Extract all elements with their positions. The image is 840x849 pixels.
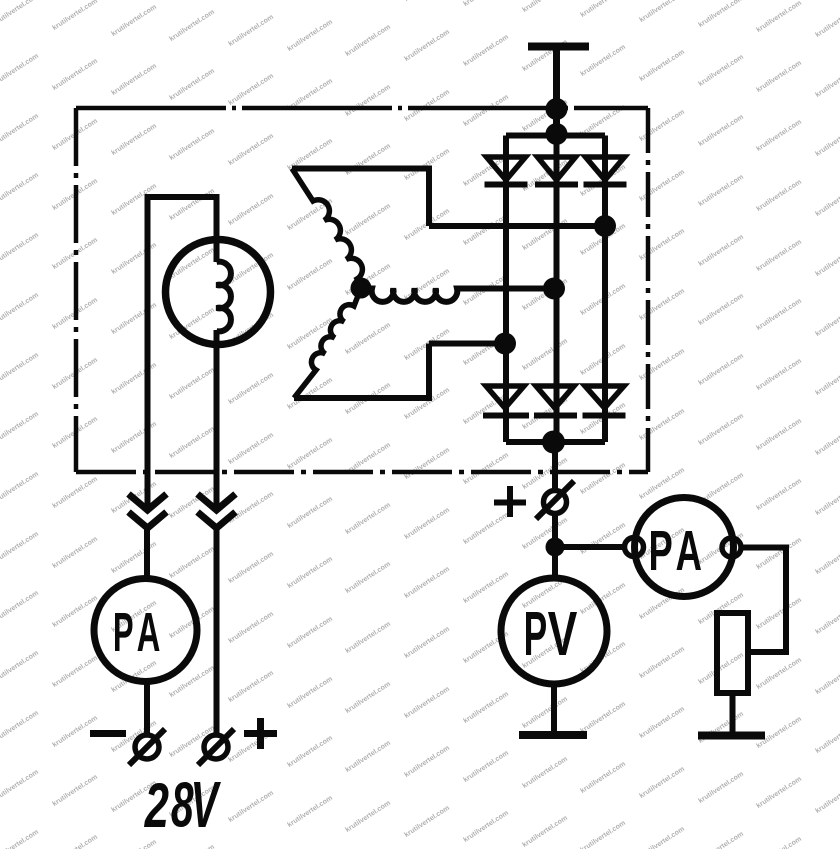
diode VD3 cathode bar	[584, 182, 627, 188]
svg-text:krutilvertel.com: krutilvertel.com	[755, 477, 803, 512]
terminal: plus output (circle with slash)	[544, 491, 567, 514]
svg-text:krutilvertel.com: krutilvertel.com	[110, 301, 158, 336]
svg-text:krutilvertel.com: krutilvertel.com	[403, 0, 451, 3]
svg-text:krutilvertel.com: krutilvertel.com	[638, 407, 686, 442]
svg-text:krutilvertel.com: krutilvertel.com	[344, 142, 392, 177]
node: phase B at diode column 2	[543, 278, 565, 300]
svg-text:krutilvertel.com: krutilvertel.com	[0, 171, 40, 206]
svg-text:krutilvertel.com: krutilvertel.com	[755, 0, 803, 34]
svg-text:krutilvertel.com: krutilvertel.com	[521, 337, 569, 372]
svg-text:krutilvertel.com: krutilvertel.com	[462, 33, 510, 68]
svg-text:krutilvertel.com: krutilvertel.com	[403, 446, 451, 481]
svg-text:krutilvertel.com: krutilvertel.com	[110, 838, 158, 849]
svg-text:krutilvertel.com: krutilvertel.com	[0, 52, 40, 87]
wire ground stem to rectifier	[553, 47, 560, 137]
diode VD5 cathode bar	[534, 413, 577, 419]
alternator housing border right (dash-dot)	[646, 108, 651, 472]
brush arrow right (double chevron)	[198, 494, 236, 510]
svg-text:krutilvertel.com: krutilvertel.com	[814, 482, 840, 517]
svg-text:krutilvertel.com: krutilvertel.com	[286, 436, 334, 471]
node: PV / PA2 tap	[546, 538, 565, 557]
svg-text:krutilvertel.com: krutilvertel.com	[227, 371, 275, 406]
wire diode column 2	[554, 136, 560, 442]
svg-text:krutilvertel.com: krutilvertel.com	[403, 625, 451, 660]
brush arrow left (double chevron)	[129, 494, 167, 510]
svg-text:krutilvertel.com: krutilvertel.com	[579, 760, 627, 795]
svg-text:krutilvertel.com: krutilvertel.com	[814, 64, 840, 99]
stator top edge	[292, 169, 429, 227]
svg-text:krutilvertel.com: krutilvertel.com	[227, 550, 275, 585]
svg-text:krutilvertel.com: krutilvertel.com	[51, 833, 99, 849]
svg-text:krutilvertel.com: krutilvertel.com	[51, 535, 99, 570]
svg-text:krutilvertel.com: krutilvertel.com	[814, 541, 840, 576]
svg-text:krutilvertel.com: krutilvertel.com	[638, 0, 686, 24]
svg-text:krutilvertel.com: krutilvertel.com	[814, 422, 840, 457]
svg-text:krutilvertel.com: krutilvertel.com	[755, 178, 803, 213]
wire cathode bus (bottom)	[506, 439, 605, 445]
wire rotor loop (brush leads)	[148, 197, 217, 510]
svg-text:krutilvertel.com: krutilvertel.com	[168, 187, 216, 222]
svg-text:krutilvertel.com: krutilvertel.com	[814, 183, 840, 218]
stator phase B winding (horizontal coil)	[361, 289, 554, 302]
svg-text:krutilvertel.com: krutilvertel.com	[110, 122, 158, 157]
svg-text:krutilvertel.com: krutilvertel.com	[521, 755, 569, 790]
svg-text:krutilvertel.com: krutilvertel.com	[638, 825, 686, 849]
svg-text:krutilvertel.com: krutilvertel.com	[814, 601, 840, 636]
label plus (output terminal)	[494, 486, 526, 517]
svg-text:krutilvertel.com: krutilvertel.com	[110, 3, 158, 38]
wire plus output through housing	[552, 442, 558, 491]
svg-text:krutilvertel.com: krutilvertel.com	[51, 0, 99, 32]
svg-text:krutilvertel.com: krutilvertel.com	[697, 770, 745, 805]
diode VD2 cathode bar	[535, 182, 578, 188]
svg-text:krutilvertel.com: krutilvertel.com	[697, 0, 745, 29]
svg-text:krutilvertel.com: krutilvertel.com	[0, 410, 40, 445]
svg-text:krutilvertel.com: krutilvertel.com	[521, 695, 569, 730]
svg-text:krutilvertel.com: krutilvertel.com	[168, 366, 216, 401]
svg-text:krutilvertel.com: krutilvertel.com	[110, 62, 158, 97]
svg-text:krutilvertel.com: krutilvertel.com	[814, 303, 840, 338]
svg-text:krutilvertel.com: krutilvertel.com	[227, 431, 275, 466]
label plus	[244, 718, 277, 749]
svg-text:krutilvertel.com: krutilvertel.com	[168, 127, 216, 162]
ground (top chassis bar)	[528, 43, 589, 51]
svg-text:krutilvertel.com: krutilvertel.com	[403, 28, 451, 63]
svg-text:krutilvertel.com: krutilvertel.com	[638, 168, 686, 203]
svg-text:krutilvertel.com: krutilvertel.com	[462, 809, 510, 844]
svg-text:krutilvertel.com: krutilvertel.com	[521, 0, 569, 14]
svg-text:krutilvertel.com: krutilvertel.com	[0, 470, 40, 505]
svg-text:krutilvertel.com: krutilvertel.com	[462, 511, 510, 546]
svg-text:krutilvertel.com: krutilvertel.com	[0, 709, 40, 744]
svg-text:krutilvertel.com: krutilvertel.com	[110, 420, 158, 455]
resistor R (load)	[717, 613, 748, 693]
node: ground wire crossing housing border	[546, 98, 568, 120]
svg-text:krutilvertel.com: krutilvertel.com	[51, 773, 99, 808]
svg-text:krutilvertel.com: krutilvertel.com	[286, 257, 334, 292]
svg-text:krutilvertel.com: krutilvertel.com	[110, 540, 158, 575]
svg-text:krutilvertel.com: krutilvertel.com	[227, 789, 275, 824]
wire PA1 to minus terminal	[144, 682, 150, 736]
svg-text:krutilvertel.com: krutilvertel.com	[638, 347, 686, 382]
wire right brush to plus terminal	[214, 528, 220, 735]
svg-text:krutilvertel.com: krutilvertel.com	[697, 710, 745, 745]
wire left brush to ammeter PA1	[144, 528, 150, 579]
svg-text:krutilvertel.com: krutilvertel.com	[344, 321, 392, 356]
wire anode bus (top)	[506, 133, 605, 139]
svg-text:krutilvertel.com: krutilvertel.com	[227, 132, 275, 167]
svg-text:krutilvertel.com: krutilvertel.com	[0, 0, 40, 27]
svg-text:krutilvertel.com: krutilvertel.com	[286, 794, 334, 829]
svg-text:krutilvertel.com: krutilvertel.com	[814, 661, 840, 696]
svg-text:krutilvertel.com: krutilvertel.com	[227, 192, 275, 227]
svg-text:krutilvertel.com: krutilvertel.com	[697, 651, 745, 686]
svg-text:krutilvertel.com: krutilvertel.com	[814, 243, 840, 278]
wire phase A to rectifier	[429, 223, 605, 229]
svg-text:krutilvertel.com: krutilvertel.com	[579, 0, 627, 19]
svg-text:krutilvertel.com: krutilvertel.com	[638, 645, 686, 680]
alternator housing border bottom (dash-dot)	[76, 470, 648, 475]
svg-text:krutilvertel.com: krutilvertel.com	[521, 814, 569, 849]
svg-text:krutilvertel.com: krutilvertel.com	[638, 108, 686, 143]
alternator housing border top (dash-dot)	[76, 106, 648, 111]
ammeter PA2	[635, 498, 734, 597]
node: stator star point	[351, 278, 372, 299]
diode VD5	[536, 386, 574, 408]
svg-text:krutilvertel.com: krutilvertel.com	[0, 530, 40, 565]
svg-text:krutilvertel.com: krutilvertel.com	[521, 217, 569, 252]
rotor field winding bumps	[217, 262, 231, 332]
svg-text:krutilvertel.com: krutilvertel.com	[344, 799, 392, 834]
svg-text:krutilvertel.com: krutilvertel.com	[755, 297, 803, 332]
svg-text:krutilvertel.com: krutilvertel.com	[814, 780, 840, 815]
svg-text:krutilvertel.com: krutilvertel.com	[755, 238, 803, 273]
svg-text:krutilvertel.com: krutilvertel.com	[344, 83, 392, 118]
node: phase A at diode column 3	[594, 215, 616, 237]
svg-text:krutilvertel.com: krutilvertel.com	[227, 610, 275, 645]
stator phase C winding (scalloped)	[294, 288, 361, 398]
svg-text:krutilvertel.com: krutilvertel.com	[0, 589, 40, 624]
label 28V	[144, 782, 221, 827]
svg-text:krutilvertel.com: krutilvertel.com	[755, 59, 803, 94]
terminal: minus (circle with slash)	[135, 735, 159, 759]
svg-text:krutilvertel.com: krutilvertel.com	[579, 521, 627, 556]
svg-text:krutilvertel.com: krutilvertel.com	[403, 88, 451, 123]
node: rectifier plus output	[542, 431, 565, 454]
svg-text:krutilvertel.com: krutilvertel.com	[462, 570, 510, 605]
svg-text:krutilvertel.com: krutilvertel.com	[755, 835, 803, 849]
svg-text:krutilvertel.com: krutilvertel.com	[462, 212, 510, 247]
rotor circle	[166, 240, 271, 345]
svg-text:krutilvertel.com: krutilvertel.com	[286, 675, 334, 710]
svg-text:krutilvertel.com: krutilvertel.com	[638, 48, 686, 83]
svg-text:krutilvertel.com: krutilvertel.com	[755, 596, 803, 631]
svg-text:krutilvertel.com: krutilvertel.com	[697, 173, 745, 208]
svg-text:krutilvertel.com: krutilvertel.com	[638, 705, 686, 740]
svg-text:krutilvertel.com: krutilvertel.com	[227, 13, 275, 48]
diode VD2	[538, 157, 576, 180]
svg-text:krutilvertel.com: krutilvertel.com	[110, 361, 158, 396]
diode VD1 cathode bar	[485, 182, 528, 188]
svg-text:krutilvertel.com: krutilvertel.com	[168, 425, 216, 460]
wire diode column 3	[602, 136, 608, 443]
svg-text:krutilvertel.com: krutilvertel.com	[579, 819, 627, 849]
label minus	[90, 730, 126, 737]
diode VD1	[487, 157, 526, 180]
svg-text:krutilvertel.com: krutilvertel.com	[286, 615, 334, 650]
svg-text:krutilvertel.com: krutilvertel.com	[462, 0, 510, 8]
svg-text:krutilvertel.com: krutilvertel.com	[286, 495, 334, 530]
svg-text:krutilvertel.com: krutilvertel.com	[344, 501, 392, 536]
svg-text:krutilvertel.com: krutilvertel.com	[168, 67, 216, 102]
svg-text:krutilvertel.com: krutilvertel.com	[286, 734, 334, 769]
svg-text:krutilvertel.com: krutilvertel.com	[0, 768, 40, 803]
svg-text:krutilvertel.com: krutilvertel.com	[51, 654, 99, 689]
voltmeter PV	[501, 578, 607, 684]
diode VD4	[486, 386, 524, 408]
wire PV to ground	[551, 684, 557, 735]
svg-text:krutilvertel.com: krutilvertel.com	[697, 292, 745, 327]
ground bar (resistor)	[698, 732, 765, 740]
wire PA2 to load resistor	[741, 548, 786, 653]
ammeter PA1	[94, 579, 197, 682]
svg-text:krutilvertel.com: krutilvertel.com	[403, 744, 451, 779]
svg-text:krutilvertel.com: krutilvertel.com	[755, 357, 803, 392]
wire diode column 1	[503, 136, 509, 443]
svg-text:krutilvertel.com: krutilvertel.com	[344, 620, 392, 655]
svg-text:krutilvertel.com: krutilvertel.com	[403, 685, 451, 720]
svg-text:krutilvertel.com: krutilvertel.com	[814, 720, 840, 755]
svg-text:krutilvertel.com: krutilvertel.com	[638, 287, 686, 322]
svg-text:krutilvertel.com: krutilvertel.com	[0, 291, 40, 326]
svg-text:krutilvertel.com: krutilvertel.com	[697, 113, 745, 148]
terminal: PA2 right	[722, 538, 741, 557]
svg-text:krutilvertel.com: krutilvertel.com	[697, 233, 745, 268]
svg-text:krutilvertel.com: krutilvertel.com	[286, 316, 334, 351]
node: phase C at diode column 1	[494, 333, 516, 355]
ground bar (PV)	[519, 731, 587, 739]
diode VD6	[585, 386, 624, 408]
svg-text:krutilvertel.com: krutilvertel.com	[286, 18, 334, 53]
terminal: PA2 left	[625, 538, 644, 557]
svg-text:krutilvertel.com: krutilvertel.com	[462, 690, 510, 725]
terminal: plus (circle with slash)	[204, 735, 228, 759]
svg-text:krutilvertel.com: krutilvertel.com	[403, 804, 451, 839]
svg-text:krutilvertel.com: krutilvertel.com	[755, 536, 803, 571]
svg-text:krutilvertel.com: krutilvertel.com	[227, 72, 275, 107]
alternator housing border left (dash-dot)	[74, 108, 79, 472]
svg-text:krutilvertel.com: krutilvertel.com	[168, 545, 216, 580]
svg-text:krutilvertel.com: krutilvertel.com	[0, 231, 40, 266]
svg-text:krutilvertel.com: krutilvertel.com	[344, 680, 392, 715]
svg-text:krutilvertel.com: krutilvertel.com	[697, 53, 745, 88]
svg-text:krutilvertel.com: krutilvertel.com	[168, 8, 216, 43]
svg-text:krutilvertel.com: krutilvertel.com	[755, 417, 803, 452]
svg-text:krutilvertel.com: krutilvertel.com	[814, 4, 840, 39]
wire output to PV node	[552, 514, 558, 579]
wire resistor to ground	[730, 693, 736, 736]
svg-text:krutilvertel.com: krutilvertel.com	[403, 565, 451, 600]
diode VD6 cathode bar	[583, 413, 626, 419]
node: ground wire at anode bus	[546, 123, 568, 145]
svg-text:krutilvertel.com: krutilvertel.com	[0, 649, 40, 684]
svg-text:krutilvertel.com: krutilvertel.com	[51, 57, 99, 92]
svg-text:krutilvertel.com: krutilvertel.com	[344, 560, 392, 595]
diode VD3	[586, 157, 625, 180]
svg-text:krutilvertel.com: krutilvertel.com	[814, 362, 840, 397]
svg-text:krutilvertel.com: krutilvertel.com	[579, 461, 627, 496]
svg-text:krutilvertel.com: krutilvertel.com	[0, 112, 40, 147]
svg-text:krutilvertel.com: krutilvertel.com	[697, 830, 745, 849]
svg-text:krutilvertel.com: krutilvertel.com	[110, 779, 158, 814]
wire node to ammeter PA2	[555, 544, 625, 550]
svg-text:krutilvertel.com: krutilvertel.com	[0, 351, 40, 386]
svg-text:krutilvertel.com: krutilvertel.com	[0, 828, 40, 849]
svg-text:krutilvertel.com: krutilvertel.com	[638, 765, 686, 800]
svg-text:krutilvertel.com: krutilvertel.com	[110, 241, 158, 276]
svg-text:krutilvertel.com: krutilvertel.com	[638, 227, 686, 262]
svg-text:krutilvertel.com: krutilvertel.com	[697, 412, 745, 447]
svg-text:krutilvertel.com: krutilvertel.com	[344, 23, 392, 58]
svg-text:krutilvertel.com: krutilvertel.com	[697, 352, 745, 387]
svg-text:krutilvertel.com: krutilvertel.com	[755, 656, 803, 691]
svg-text:krutilvertel.com: krutilvertel.com	[755, 118, 803, 153]
svg-text:krutilvertel.com: krutilvertel.com	[344, 739, 392, 774]
svg-text:krutilvertel.com: krutilvertel.com	[579, 700, 627, 735]
diode VD4 cathode bar	[483, 413, 529, 419]
svg-text:krutilvertel.com: krutilvertel.com	[403, 506, 451, 541]
svg-text:krutilvertel.com: krutilvertel.com	[814, 123, 840, 158]
svg-text:krutilvertel.com: krutilvertel.com	[814, 840, 840, 849]
svg-text:krutilvertel.com: krutilvertel.com	[286, 555, 334, 590]
wire phase C to rectifier	[429, 341, 505, 347]
stator phase A winding (scalloped)	[292, 169, 362, 289]
stator bottom edge	[294, 344, 429, 399]
svg-text:krutilvertel.com: krutilvertel.com	[462, 749, 510, 784]
svg-text:krutilvertel.com: krutilvertel.com	[344, 202, 392, 237]
svg-text:krutilvertel.com: krutilvertel.com	[462, 93, 510, 128]
svg-text:krutilvertel.com: krutilvertel.com	[51, 475, 99, 510]
svg-text:krutilvertel.com: krutilvertel.com	[227, 669, 275, 704]
svg-text:krutilvertel.com: krutilvertel.com	[462, 451, 510, 486]
svg-text:krutilvertel.com: krutilvertel.com	[755, 775, 803, 810]
svg-text:krutilvertel.com: krutilvertel.com	[168, 843, 216, 849]
